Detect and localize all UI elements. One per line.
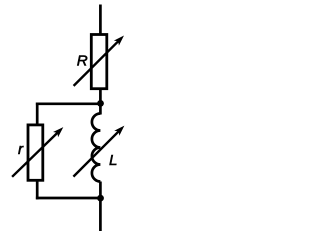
wire left upper bbox=[36, 103, 39, 126]
resistor r bbox=[28, 125, 43, 180]
arrow of variable resistor r bbox=[12, 127, 63, 177]
wire bottom rail bbox=[36, 197, 101, 200]
resistor R bbox=[91, 35, 107, 89]
svg-text:L: L bbox=[109, 152, 117, 169]
node junction top bbox=[97, 100, 104, 107]
inductor L coil bbox=[92, 114, 101, 182]
svg-text:R: R bbox=[77, 52, 88, 69]
wire top lead bbox=[99, 5, 102, 35]
wire top rail bbox=[36, 102, 101, 105]
arrow of variable resistor R bbox=[74, 36, 124, 86]
wire bottom lead bbox=[99, 198, 102, 231]
wire R bottom to node bbox=[99, 89, 102, 115]
wire left lower bbox=[36, 180, 39, 199]
wire L bottom to node bbox=[99, 182, 102, 199]
svg-text:r: r bbox=[18, 141, 24, 158]
node junction bottom bbox=[97, 195, 104, 202]
arrow of variable inductor L bbox=[73, 126, 124, 177]
